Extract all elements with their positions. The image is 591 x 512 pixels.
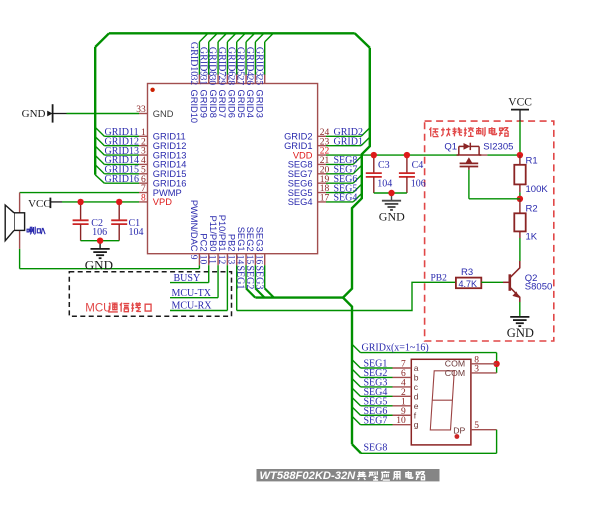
svg-text:P11/PB0: P11/PB0 xyxy=(208,215,218,251)
svg-text:25: 25 xyxy=(253,76,263,86)
svg-text:SEG8: SEG8 xyxy=(364,442,388,453)
svg-text:R1: R1 xyxy=(526,156,538,167)
svg-text:SEG3: SEG3 xyxy=(253,266,264,290)
svg-text:26: 26 xyxy=(244,76,254,86)
svg-text:27: 27 xyxy=(235,76,245,86)
svg-text:5: 5 xyxy=(474,421,479,431)
svg-text:C3: C3 xyxy=(378,160,390,171)
svg-text:29: 29 xyxy=(216,76,226,86)
svg-text:GRID7: GRID7 xyxy=(217,90,227,118)
svg-text:GRID8: GRID8 xyxy=(208,90,218,118)
svg-text:10: 10 xyxy=(396,416,406,426)
svg-text:SEG4: SEG4 xyxy=(334,193,358,204)
svg-text:P10/PB1: P10/PB1 xyxy=(217,215,227,252)
svg-text:GRID16: GRID16 xyxy=(105,174,139,185)
svg-text:PC2: PC2 xyxy=(198,233,208,251)
svg-text:Q1: Q1 xyxy=(444,142,457,153)
svg-text:104: 104 xyxy=(377,179,392,190)
svg-text:GND: GND xyxy=(379,210,405,224)
svg-text:GND: GND xyxy=(85,257,113,272)
svg-text:SEG3: SEG3 xyxy=(254,227,264,252)
svg-text:VCC: VCC xyxy=(28,198,51,210)
svg-text:14: 14 xyxy=(235,255,245,265)
svg-text:33: 33 xyxy=(136,105,146,115)
svg-text:SI2305: SI2305 xyxy=(483,142,513,153)
svg-text:GRID9: GRID9 xyxy=(198,90,208,118)
svg-text:12: 12 xyxy=(216,255,226,265)
svg-text:VCC: VCC xyxy=(508,97,532,109)
svg-text:GRID3: GRID3 xyxy=(253,47,264,76)
svg-text:R3: R3 xyxy=(461,267,473,278)
svg-text:GRID6: GRID6 xyxy=(226,90,236,118)
svg-text:MCU-TX: MCU-TX xyxy=(172,288,212,299)
svg-text:BUSY: BUSY xyxy=(174,273,201,284)
svg-text:8: 8 xyxy=(141,194,146,204)
svg-text:32: 32 xyxy=(188,76,198,86)
svg-text:GND: GND xyxy=(153,109,174,119)
svg-text:16: 16 xyxy=(253,255,263,265)
svg-text:GRID10: GRID10 xyxy=(189,90,199,124)
svg-text:MCU-RX: MCU-RX xyxy=(172,301,213,312)
svg-text:MCU: MCU xyxy=(85,303,111,315)
svg-text:GRID4: GRID4 xyxy=(245,90,255,118)
svg-text:S8050: S8050 xyxy=(525,282,552,293)
svg-text:VPD: VPD xyxy=(153,197,172,207)
svg-text:100K: 100K xyxy=(526,184,549,195)
svg-text:PB2: PB2 xyxy=(431,273,448,283)
svg-text:3: 3 xyxy=(474,365,479,375)
svg-text:PWMN/DAC: PWMN/DAC xyxy=(189,200,199,252)
svg-text:COM: COM xyxy=(445,368,465,378)
svg-text:9: 9 xyxy=(188,255,198,260)
svg-text:GND: GND xyxy=(22,108,46,120)
svg-text:GRID5: GRID5 xyxy=(236,90,246,118)
svg-text:DP: DP xyxy=(453,426,465,436)
svg-text:1K: 1K xyxy=(526,232,538,243)
svg-text:SEG2: SEG2 xyxy=(245,227,255,252)
svg-text:R2: R2 xyxy=(526,204,538,215)
svg-text:30: 30 xyxy=(207,76,217,86)
svg-text:31: 31 xyxy=(197,76,207,86)
svg-text:11: 11 xyxy=(207,255,217,264)
svg-text:VDD: VDD xyxy=(293,150,313,160)
svg-text:SEG7: SEG7 xyxy=(364,415,388,426)
svg-text:GRID1: GRID1 xyxy=(334,136,363,147)
svg-text:GRIDx(x=1~16): GRIDx(x=1~16) xyxy=(362,343,429,354)
svg-text:SEG1: SEG1 xyxy=(236,227,246,252)
svg-text:17: 17 xyxy=(320,194,330,204)
svg-text:GRID3: GRID3 xyxy=(254,90,264,118)
svg-text:104: 104 xyxy=(129,227,144,238)
svg-text:15: 15 xyxy=(244,255,254,265)
svg-text:PB2: PB2 xyxy=(226,234,236,252)
svg-text:106: 106 xyxy=(92,227,107,238)
svg-text:10: 10 xyxy=(197,255,207,265)
svg-text:g: g xyxy=(414,420,419,430)
svg-text:GND: GND xyxy=(507,326,534,340)
svg-text:106: 106 xyxy=(411,179,426,190)
svg-text:WT588F02KD-32N: WT588F02KD-32N xyxy=(260,470,357,482)
svg-text:4.7K: 4.7K xyxy=(459,279,478,289)
svg-text:SEG4: SEG4 xyxy=(288,197,313,207)
svg-text:C4: C4 xyxy=(412,160,424,171)
svg-text:13: 13 xyxy=(225,255,235,265)
svg-text:28: 28 xyxy=(225,76,235,86)
